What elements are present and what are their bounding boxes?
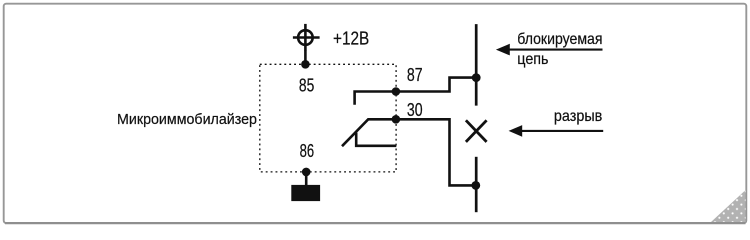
relay armature (pin 30) and wire down to blocked line xyxy=(342,119,476,185)
+12V supply symbol xyxy=(293,24,320,51)
junction dot pin 85 xyxy=(301,60,310,69)
junction dot pin 86 xyxy=(302,168,311,177)
svg-text:30: 30 xyxy=(407,100,423,120)
normally-closed contact 87a xyxy=(356,133,396,146)
svg-text:87: 87 xyxy=(407,65,423,85)
wire pin 86 to ground xyxy=(305,172,308,186)
svg-text:85: 85 xyxy=(299,76,314,96)
blocked circuit wire (lower segment) xyxy=(475,157,478,212)
blocked circuit wire (upper segment) xyxy=(475,24,478,106)
ground xyxy=(291,185,320,201)
break X symbol xyxy=(466,120,487,142)
svg-text:блокируемая: блокируемая xyxy=(517,31,602,48)
page frame bottom edge xyxy=(5,222,746,224)
junction dot pin 30 on box edge xyxy=(392,115,401,124)
svg-text:86: 86 xyxy=(300,141,315,161)
wire from +12V to pin 85 xyxy=(304,50,307,64)
arrow: разрыв xyxy=(519,130,603,132)
svg-text:Микроиммобилайзер: Микроиммобилайзер xyxy=(117,112,257,128)
junction dot pin 87 on box edge xyxy=(392,87,401,96)
svg-text:цепь: цепь xyxy=(517,51,548,68)
svg-text:разрыв: разрыв xyxy=(554,108,602,125)
arrow: blocked circuit xyxy=(507,49,603,51)
junction dot on blocked line (87 wire) xyxy=(472,73,481,82)
relay dashed box xyxy=(260,64,396,172)
corner fold decoration xyxy=(711,190,746,222)
svg-text:+12В: +12В xyxy=(333,28,369,48)
relay contact 87 (fixed contact with tick) and wire to blocked line xyxy=(355,78,477,105)
junction dot on blocked line (30 wire) xyxy=(471,181,480,190)
